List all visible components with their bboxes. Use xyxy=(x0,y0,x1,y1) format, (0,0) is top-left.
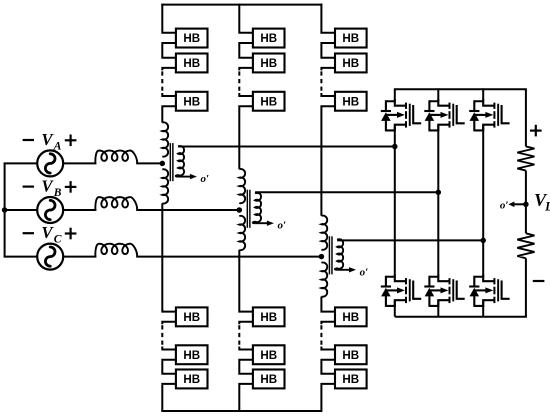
HB cell bot1-2 xyxy=(176,345,208,364)
wire Q4 source to bottom bus xyxy=(394,300,396,317)
wire phase node to Q5 drain leg2 xyxy=(437,192,439,276)
svg-text:o′: o′ xyxy=(201,173,210,185)
wire phase B inductor to transformer xyxy=(136,209,239,211)
diode D5 (bottom) xyxy=(424,276,438,307)
label -VA+ xyxy=(23,139,34,141)
HB cell top1-3 xyxy=(176,92,208,111)
diode D6 (bottom) xyxy=(469,276,483,307)
wire transformer to bottom HB col2 xyxy=(239,250,253,312)
wire col1 HB3 to transformer xyxy=(162,106,176,122)
node neutral junction xyxy=(2,207,8,213)
wire col2 HB3 to transformer xyxy=(239,106,253,169)
transistor Q1 (top MOSFET) xyxy=(386,99,421,131)
inductor LA xyxy=(95,151,137,164)
wire phase C inductor to transformer xyxy=(136,256,321,258)
wire top bus drop col1 xyxy=(162,4,176,33)
transistor Q3 (top MOSFET) xyxy=(474,99,509,131)
inductor LB xyxy=(95,197,137,210)
transistor Q4 (bottom MOSFET) xyxy=(386,275,421,307)
wire secondary phase B to inverter xyxy=(255,191,438,193)
wire link col3 botHB2-botHB3 xyxy=(321,360,335,374)
wire stub col1 below HB2 xyxy=(162,68,176,71)
svg-text:C: C xyxy=(54,234,62,246)
node secondary to leg 2 xyxy=(436,190,442,196)
wire link col3 HB1-HB2 xyxy=(321,43,335,58)
svg-text:o′: o′ xyxy=(278,220,287,232)
node secondary to leg 3 xyxy=(480,238,486,244)
wire stub col3 below botHB1 xyxy=(321,322,335,325)
svg-text:V: V xyxy=(41,223,54,242)
voltage source VA xyxy=(37,150,63,176)
node secondary to leg 1 xyxy=(392,144,398,150)
svg-text:V: V xyxy=(41,130,54,149)
wire col3 HB3 to transformer xyxy=(321,106,335,216)
diode D4 (bottom) xyxy=(381,276,395,307)
label plus load xyxy=(530,130,542,132)
wire top bus to Q1 drain xyxy=(394,88,396,101)
wire inverter bottom bus xyxy=(395,316,527,318)
wire stub col1 above HB3 xyxy=(162,93,176,96)
wire stub col3 above botHB2 xyxy=(321,347,335,350)
wire bottom bus xyxy=(161,410,322,412)
diode D1 (top) xyxy=(381,100,395,131)
label -VB+ xyxy=(23,186,34,188)
transformer T3 xyxy=(321,216,356,297)
HB cell top2-1 xyxy=(253,29,285,48)
wire phase B from rail to source xyxy=(4,209,38,211)
HB cell bot1-1 xyxy=(176,307,208,326)
wire col2 to bottom bus xyxy=(239,384,253,411)
wire phase node to Q6 drain leg3 xyxy=(482,240,484,276)
node load midpoint xyxy=(523,202,529,208)
wire dashed omitted cells col2 bottom xyxy=(238,325,240,346)
HB cell bot2-1 xyxy=(253,307,285,326)
HB cell top2-2 xyxy=(253,54,285,73)
wire Q3 source to phase node xyxy=(482,125,484,241)
wire top bus xyxy=(161,4,322,6)
wire between resistors (upper) xyxy=(525,171,527,205)
wire Q6 source to bottom bus xyxy=(482,300,484,317)
wire Q2 source to phase node xyxy=(437,125,439,193)
wire Q1 source to phase node xyxy=(394,125,396,147)
wire inverter top bus xyxy=(395,88,527,90)
wire Q5 source to bottom bus xyxy=(437,300,439,317)
wire stub col2 above botHB2 xyxy=(239,347,253,350)
wire top bus to Q3 drain xyxy=(482,88,484,101)
wire dashed omitted cells col1 bottom xyxy=(161,325,163,346)
wire stub col3 above HB3 xyxy=(321,93,335,96)
wire left neutral rail xyxy=(4,163,6,256)
voltage source VC xyxy=(37,244,63,270)
wire secondary phase C to inverter xyxy=(337,239,483,241)
diode D3 (top) xyxy=(469,100,483,131)
HB cell bot3-2 xyxy=(335,345,367,364)
wire dashed omitted cells col3 bottom xyxy=(320,325,322,346)
wire stub col2 below HB2 xyxy=(239,68,253,71)
wire link col2 HB1-HB2 xyxy=(239,43,253,58)
HB cell top3-2 xyxy=(335,54,367,73)
diode D2 (top) xyxy=(424,100,438,131)
transistor Q6 (bottom MOSFET) xyxy=(474,275,509,307)
resistor RL lower xyxy=(517,233,534,258)
node primary tap T2 xyxy=(237,207,243,213)
resistor RL upper xyxy=(517,146,534,170)
node primary tap T3 xyxy=(319,254,325,260)
wire top bus to Q2 drain xyxy=(437,88,439,101)
HB cell bot1-3 xyxy=(176,370,208,389)
wire stub col2 below botHB1 xyxy=(239,322,253,325)
wire dashed omitted cells col3 top xyxy=(320,71,322,92)
svg-text:A: A xyxy=(53,140,62,152)
wire top bus drop col3 xyxy=(321,4,335,33)
wire phase C source to inductor xyxy=(63,256,96,258)
HB cell bot3-3 xyxy=(335,370,367,389)
wire stub col2 above HB3 xyxy=(239,93,253,96)
wire secondary phase A to inverter xyxy=(178,146,395,148)
HB cell top1-2 xyxy=(176,54,208,73)
wire top bus drop col2 xyxy=(239,4,253,33)
HB cell bot2-2 xyxy=(253,345,285,364)
label minus load xyxy=(533,280,545,282)
HB cell bot3-1 xyxy=(335,307,367,326)
svg-text:B: B xyxy=(53,187,62,199)
wire dashed omitted cells col1 top xyxy=(161,71,163,92)
wire transformer to bottom HB col1 xyxy=(162,203,176,311)
wire phase B source to inductor xyxy=(63,209,96,211)
svg-text:L: L xyxy=(544,200,550,214)
transformer T1 xyxy=(162,122,197,203)
svg-text:o′: o′ xyxy=(500,199,509,211)
HB cell top2-3 xyxy=(253,92,285,111)
wire node to lower resistor xyxy=(525,204,527,233)
wire phase A inductor to transformer xyxy=(136,162,162,164)
HB cell top3-3 xyxy=(335,92,367,111)
wire col1 to bottom bus xyxy=(162,384,176,411)
wire link col1 HB1-HB2 xyxy=(162,43,176,58)
voltage source VB xyxy=(37,197,63,223)
wire transformer to bottom HB col3 xyxy=(321,297,335,312)
inductor LC xyxy=(95,244,137,257)
svg-text:V: V xyxy=(41,176,54,195)
transistor Q5 (bottom MOSFET) xyxy=(429,275,464,307)
label -VC+ xyxy=(23,232,34,234)
HB cell top3-1 xyxy=(335,29,367,48)
wire phase node to Q4 drain leg1 xyxy=(394,147,396,277)
wire stub col1 below botHB1 xyxy=(162,322,176,325)
transformer T2 xyxy=(239,169,274,250)
wire col3 to bottom bus xyxy=(321,384,335,411)
node primary tap T1 xyxy=(160,161,166,167)
wire phase C from rail to source xyxy=(4,256,38,258)
wire load top from bus xyxy=(525,89,527,146)
wire stub col1 above botHB2 xyxy=(162,347,176,350)
wire load bottom to bus xyxy=(525,258,527,316)
wire stub col3 below HB2 xyxy=(321,68,335,71)
svg-text:o′: o′ xyxy=(360,266,369,278)
wire phase A source to inductor xyxy=(63,162,96,164)
transistor Q2 (top MOSFET) xyxy=(429,99,464,131)
wire link col2 botHB2-botHB3 xyxy=(239,360,253,374)
HB cell bot2-3 xyxy=(253,370,285,389)
wire phase A from rail to source xyxy=(4,162,38,164)
wire arrow to o-prime xyxy=(513,203,526,205)
wire dashed omitted cells col2 top xyxy=(238,71,240,92)
HB cell top1-1 xyxy=(176,29,208,48)
wire link col1 botHB2-botHB3 xyxy=(162,360,176,374)
